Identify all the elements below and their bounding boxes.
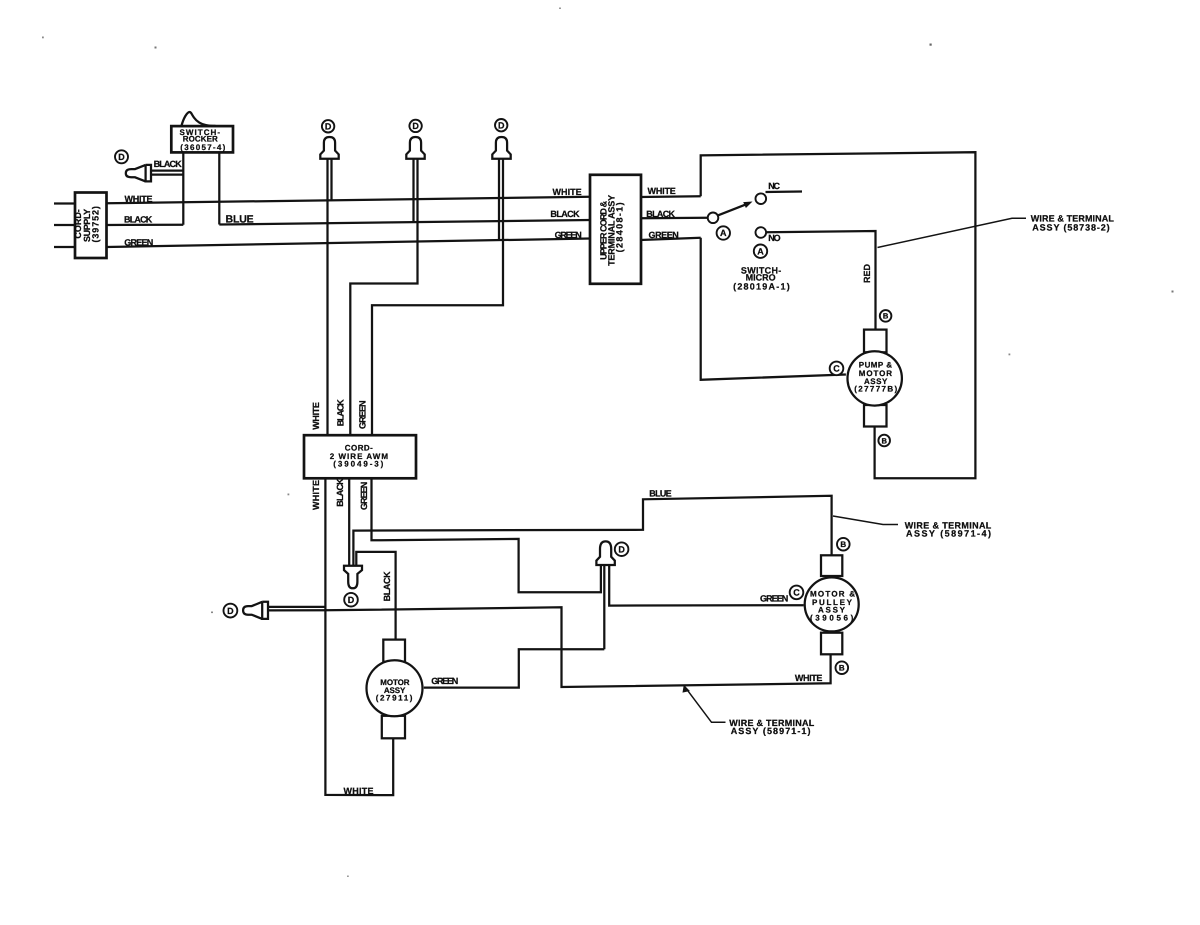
svg-text:ASSY (58971-4): ASSY (58971-4) <box>906 529 991 539</box>
svg-text:(28019A-1): (28019A-1) <box>733 281 790 291</box>
svg-text:B: B <box>839 664 845 673</box>
svg-text:D: D <box>498 120 505 130</box>
svg-text:C: C <box>793 588 800 598</box>
svg-text:GREEN: GREEN <box>124 238 153 248</box>
svg-text:WHITE: WHITE <box>311 480 321 510</box>
svg-text:BLUE: BLUE <box>226 213 254 225</box>
svg-text:BLACK: BLACK <box>550 209 580 219</box>
svg-text:(39752): (39752) <box>91 206 101 242</box>
svg-text:BLACK: BLACK <box>154 159 183 169</box>
svg-text:ASSY (58971-1): ASSY (58971-1) <box>731 726 811 736</box>
svg-text:D: D <box>348 595 355 605</box>
svg-text:BLACK: BLACK <box>646 209 675 219</box>
svg-text:D: D <box>227 606 234 616</box>
svg-text:BLACK: BLACK <box>335 478 345 507</box>
svg-text:B: B <box>840 540 846 549</box>
svg-text:WHITE: WHITE <box>553 187 582 197</box>
svg-text:D: D <box>618 544 625 554</box>
svg-text:BLACK: BLACK <box>124 214 153 224</box>
svg-text:(28408-1): (28408-1) <box>615 202 625 252</box>
svg-text:A: A <box>720 228 727 238</box>
svg-text:CORD-: CORD- <box>345 443 373 452</box>
svg-text:D: D <box>118 152 125 162</box>
svg-text:B: B <box>883 312 889 321</box>
svg-text:(27911): (27911) <box>376 694 413 703</box>
svg-text:C: C <box>833 364 840 374</box>
svg-text:WHITE: WHITE <box>125 194 153 204</box>
svg-text:GREEN: GREEN <box>358 400 368 429</box>
svg-text:NC: NC <box>768 181 780 191</box>
svg-text:WHITE: WHITE <box>795 673 823 683</box>
svg-text:GREEN: GREEN <box>649 230 679 240</box>
svg-text:ASSY (58738-2): ASSY (58738-2) <box>1032 222 1109 232</box>
svg-text:GREEN: GREEN <box>760 594 788 604</box>
svg-text:BLACK: BLACK <box>336 399 346 427</box>
svg-text:D: D <box>325 122 332 132</box>
svg-text:WHITE: WHITE <box>311 402 321 430</box>
svg-text:WHITE: WHITE <box>344 786 374 796</box>
svg-text:BLACK: BLACK <box>382 571 392 602</box>
svg-text:(27777B): (27777B) <box>854 385 897 394</box>
svg-text:WHITE: WHITE <box>648 186 676 196</box>
svg-text:GREEN: GREEN <box>431 676 458 686</box>
svg-text:(39049-3): (39049-3) <box>333 460 383 469</box>
svg-text:B: B <box>881 436 887 445</box>
svg-text:GREEN: GREEN <box>359 482 369 510</box>
svg-text:NO: NO <box>768 233 780 243</box>
svg-text:GREEN: GREEN <box>555 230 582 240</box>
svg-text:RED: RED <box>862 264 872 284</box>
svg-text:BLUE: BLUE <box>649 489 671 499</box>
svg-text:D: D <box>412 121 419 131</box>
svg-text:(36057-4): (36057-4) <box>180 143 225 152</box>
svg-text:A: A <box>757 246 764 256</box>
svg-text:(39056): (39056) <box>810 614 854 623</box>
